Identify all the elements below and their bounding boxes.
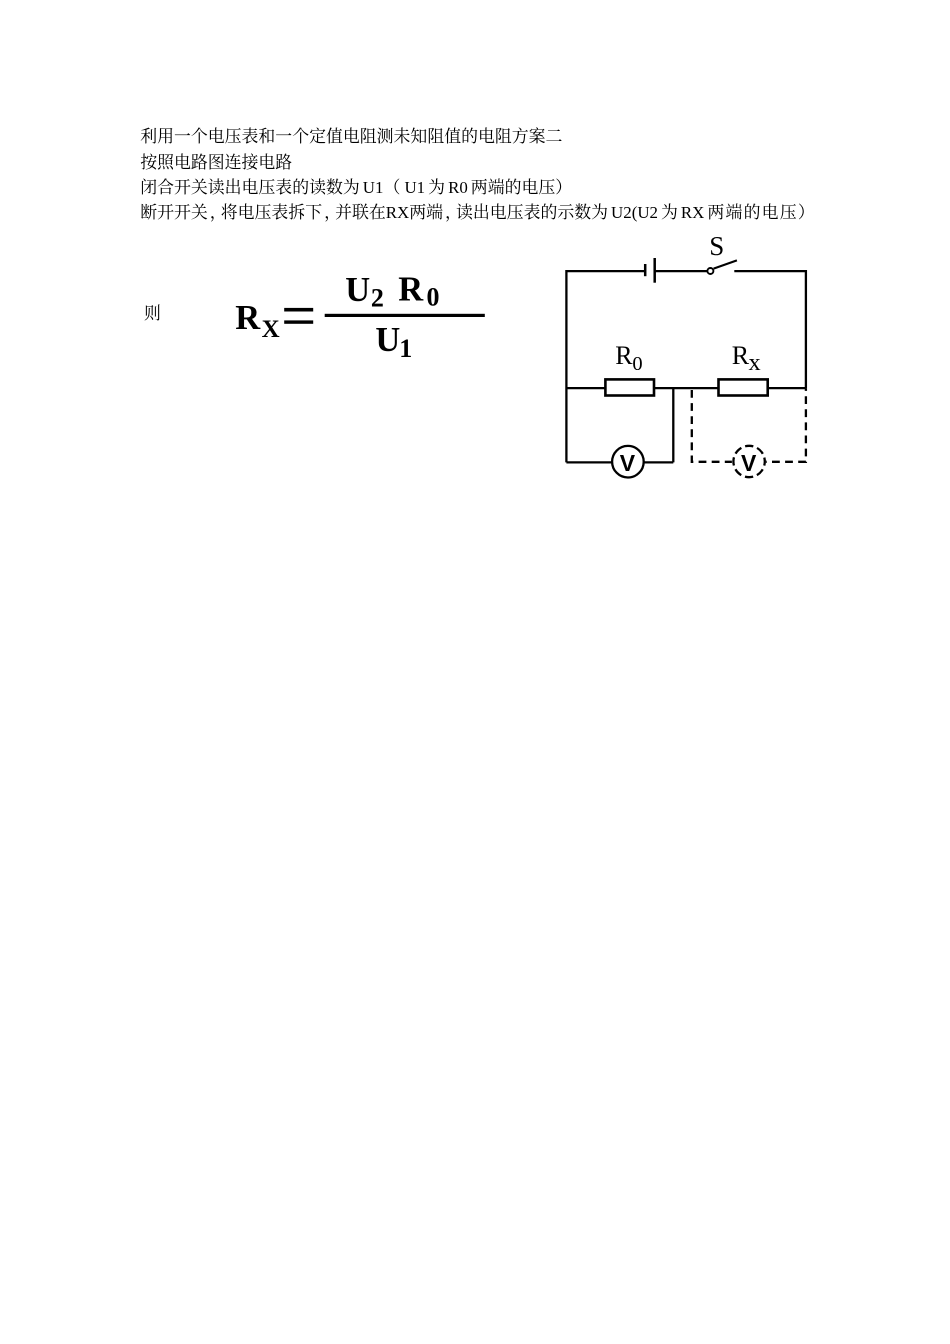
voltmeter V2 (dashed) — [733, 446, 764, 477]
resistor R0 label — [615, 341, 642, 375]
text ze — [144, 300, 161, 327]
switch S — [707, 260, 737, 274]
svg-text:U: U — [345, 271, 370, 309]
svg-text:0: 0 — [427, 282, 440, 311]
svg-text:U: U — [375, 321, 400, 359]
resistor R0 — [605, 379, 654, 395]
wire bottom left segment into voltmeter V1 — [566, 461, 611, 463]
formula fraction bar — [325, 314, 485, 317]
svg-text:R: R — [235, 299, 261, 337]
svg-text:2: 2 — [371, 284, 384, 313]
wire voltmeter V1 loop right leg — [672, 388, 674, 462]
svg-text:S: S — [709, 231, 724, 261]
text line 4 — [140, 199, 815, 226]
svg-text:V: V — [620, 450, 636, 476]
svg-text:x: x — [749, 349, 761, 376]
svg-text:V: V — [741, 450, 757, 476]
wire top-right: from switch to top-right corner down to middle wire — [734, 271, 806, 388]
battery B1 — [645, 258, 655, 283]
text line 3 — [140, 174, 572, 201]
svg-text:R: R — [732, 341, 750, 370]
resistor Rx label — [732, 341, 761, 376]
svg-text:R: R — [398, 271, 424, 309]
wire dashed V2 loop left leg and bottom — [692, 390, 732, 462]
wire middle left segment — [566, 387, 605, 389]
text line 1 — [140, 123, 562, 150]
wire battery to switch — [655, 270, 708, 272]
wire dashed V2 loop right leg and bottom — [766, 388, 806, 462]
svg-text:0: 0 — [632, 353, 642, 375]
text line 2 — [140, 149, 292, 176]
wire voltmeter V1 to right leg — [644, 461, 673, 463]
svg-text:1: 1 — [399, 334, 412, 363]
formula equals sign — [284, 308, 313, 312]
svg-text:R: R — [615, 341, 633, 370]
wire middle between resistors — [654, 387, 719, 389]
svg-text:X: X — [262, 316, 280, 343]
wire middle right segment — [768, 387, 806, 389]
resistor Rx — [719, 379, 768, 395]
wire left side: bottom-left corner up to top-left corner and to battery — [566, 271, 645, 462]
voltmeter V1 — [612, 446, 644, 478]
